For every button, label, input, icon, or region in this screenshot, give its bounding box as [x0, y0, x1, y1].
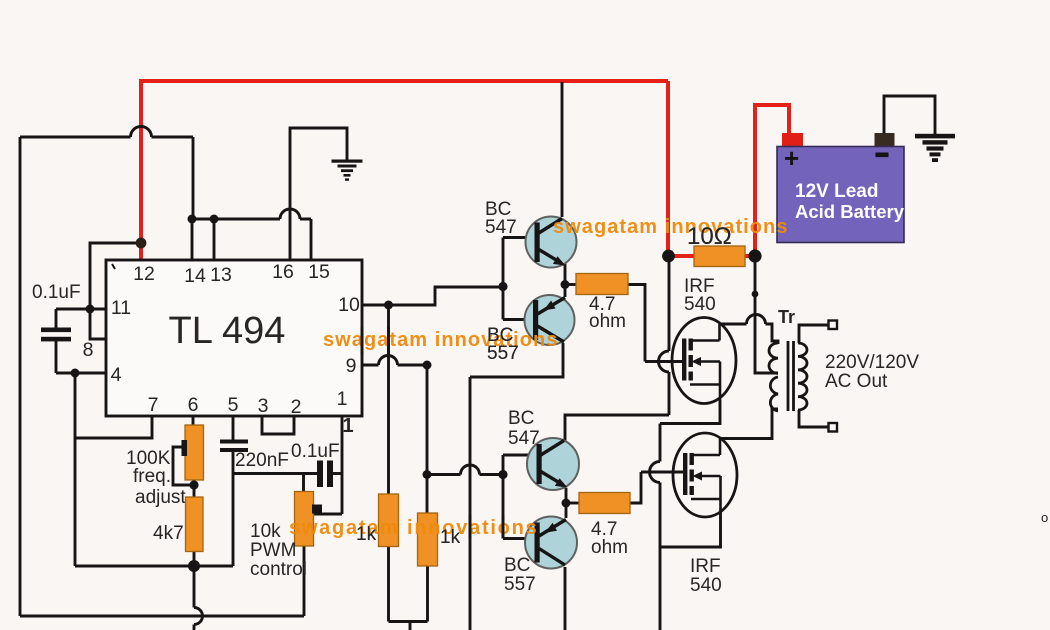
svg-text:ohm: ohm: [591, 537, 628, 558]
node lower emitters junction: [562, 499, 571, 508]
svg-text:10: 10: [338, 294, 360, 316]
svg-text:adjust: adjust: [135, 487, 186, 508]
wire M1 source to ground with hop: [660, 400, 720, 630]
svg-text:16: 16: [272, 261, 294, 283]
wire red 10ohm left: [666, 254, 694, 258]
wire pins 3-2 loop: [262, 416, 294, 434]
transformer Tr: [769, 341, 807, 411]
svg-text:4: 4: [111, 364, 122, 386]
svg-text:freq.: freq.: [133, 466, 171, 487]
wire transformer secondary top: [799, 325, 829, 343]
svg-text:0.1uF: 0.1uF: [32, 282, 81, 303]
wire pin9 with hop: [362, 364, 427, 367]
svg-text:BC: BC: [504, 555, 530, 576]
wire red right drop to 10ohm: [666, 81, 670, 256]
wire lower base vertical: [503, 455, 539, 539]
ground symbol near pin16: [332, 160, 363, 181]
wire M1 drain with hop: [721, 324, 778, 344]
svg-text:6: 6: [188, 394, 199, 416]
resistor R1 10 ohm: [694, 246, 745, 267]
wire to R3 left: [565, 283, 576, 286]
capacitor C1 0.1uF plates: [41, 328, 71, 342]
node pin12 junction: [136, 238, 147, 249]
svg-text:swagatam innovations: swagatam innovations: [323, 329, 559, 351]
wire Q4 collector down: [564, 567, 567, 630]
svg-text:2: 2: [291, 396, 302, 418]
potentiometer VR1 100K: [185, 425, 204, 480]
wire 10k pot top drop: [302, 474, 305, 493]
capacitor C4 0.1uF plates: [317, 461, 333, 488]
wire ground rail y566: [75, 565, 233, 568]
svg-text:1: 1: [337, 388, 348, 410]
wire cap C4 right stub: [333, 472, 343, 475]
wire Q1 collector to rail: [561, 82, 564, 217]
transistor Q1 BC547 upper: [526, 217, 577, 268]
wire 4k7 node down with hop: [193, 566, 196, 630]
svg-text:220V/120V: 220V/120V: [825, 352, 919, 373]
svg-text:Tr: Tr: [778, 307, 795, 327]
AC terminal top: [829, 321, 838, 330]
node lower base junction: [498, 470, 507, 479]
svg-text:TL 494: TL 494: [169, 310, 286, 352]
svg-text:BC: BC: [508, 408, 534, 429]
svg-text:557: 557: [504, 574, 536, 595]
wire top-left horizontal with hop over red: [20, 136, 193, 139]
wire pin1 to wiper: [314, 513, 342, 516]
svg-text:7: 7: [148, 394, 159, 416]
wire pin13 drop: [213, 219, 216, 260]
resistor R3 4.7 ohm upper: [576, 274, 628, 295]
wire pin12 node to pins 11-8: [90, 243, 140, 309]
wire pin1 vertical: [341, 416, 344, 514]
wire node y473 horizontal: [233, 472, 317, 475]
wire pin14 drop: [191, 219, 194, 260]
wire red battery plus feed: [755, 105, 789, 258]
potentiometer VR2 10k: [295, 492, 314, 547]
wire pin16 to ground: [290, 128, 347, 260]
node +12V drain junction: [662, 250, 675, 263]
wire R3 right to gate M1: [628, 285, 684, 362]
svg-text:14: 14: [184, 265, 206, 287]
svg-text:12: 12: [133, 263, 155, 285]
wire Q2 collector down: [470, 343, 563, 630]
svg-text:11: 11: [111, 297, 131, 319]
svg-text:control: control: [250, 559, 307, 580]
resistor R2 4k7: [186, 497, 204, 552]
svg-text:AC Out: AC Out: [825, 371, 888, 392]
node 10ohm battery junction: [748, 249, 761, 262]
svg-text:540: 540: [690, 575, 722, 596]
wire pin6 to 100K: [192, 416, 195, 426]
battery BT1 12V: [777, 133, 905, 243]
wire 1k right bottom: [426, 566, 429, 622]
node pin4 junction: [71, 369, 80, 378]
svg-text:swagatam innovations: swagatam innovations: [289, 517, 539, 539]
wire 4k7 bottom: [193, 551, 196, 566]
wire upper base vertical: [503, 238, 537, 320]
wire 100K to 4k7: [193, 480, 196, 497]
svg-text:3: 3: [258, 395, 269, 417]
wire 220nF bottom vertical: [232, 452, 235, 567]
svg-text:ohm: ohm: [589, 311, 626, 332]
node pin14 junction: [188, 215, 197, 224]
wire red 10ohm right: [745, 254, 757, 258]
node upper emitters junction: [561, 280, 570, 289]
node pin11 junction: [86, 305, 95, 314]
node pin10 junction: [384, 301, 393, 310]
wire upper emitters: [564, 262, 567, 297]
svg-text:220nF: 220nF: [235, 450, 289, 471]
wire 100K wiper: [173, 447, 193, 485]
wire 10k pot bottom: [303, 546, 306, 616]
resistor R5 1k left: [379, 494, 399, 547]
wire right vertical to pin14 node: [192, 137, 195, 219]
ground symbol battery: [915, 134, 955, 162]
wire pin5 to 220nF: [232, 416, 235, 440]
wire node 14-13-15 horizontal with hop over pin16 wire: [192, 218, 311, 221]
wire to R4 left: [566, 502, 579, 505]
wire battery minus to ground: [884, 96, 935, 134]
wire lower emitters: [565, 488, 568, 518]
node 4k7 bottom junction: [188, 560, 200, 572]
wire pins 4,7 vertical: [74, 373, 77, 566]
mosfet M1 IRF540 upper: [672, 318, 736, 404]
wire far-left vertical: [19, 137, 22, 616]
AC terminal bottom: [829, 423, 838, 432]
svg-text:Acid Battery: Acid Battery: [795, 201, 905, 222]
svg-text:PWM: PWM: [250, 540, 296, 561]
wire bottom rail: [20, 615, 304, 618]
svg-text:10k: 10k: [250, 521, 281, 542]
svg-text:13: 13: [210, 264, 232, 286]
svg-text:8: 8: [83, 339, 94, 361]
tick inside IC: [112, 264, 115, 269]
svg-text:4k7: 4k7: [153, 523, 184, 544]
wire overdraw red right drop over watermark: [362, 327, 503, 539]
resistor R6 1k right: [418, 513, 438, 566]
wire M2 source: [660, 510, 721, 547]
svg-text:1k: 1k: [356, 524, 377, 545]
resistor R4 4.7 ohm lower: [579, 493, 630, 514]
svg-text:15: 15: [308, 261, 330, 283]
transistor Q4 BC557 lower: [525, 517, 577, 569]
wire 1k bottom rail and stub: [389, 622, 428, 630]
svg-text:swagatam innovations: swagatam innovations: [553, 216, 789, 238]
wire transformer secondary bottom: [799, 410, 829, 427]
wire 1k left bottom: [387, 547, 390, 622]
svg-text:0.1uF: 0.1uF: [291, 441, 340, 462]
node pin9 junction: [423, 361, 432, 370]
svg-text:1: 1: [342, 415, 353, 437]
wire lower base horizontal with hop: [427, 473, 503, 476]
node lower base left junction: [423, 470, 432, 479]
IC U1 TL494: [106, 260, 362, 416]
wire pin10 to bases node: [362, 287, 503, 305]
capacitor C2 220nF plates: [220, 440, 248, 453]
wire cap C1 bottom to pin4: [56, 340, 106, 374]
svg-text:+: +: [784, 143, 799, 173]
wire R4 right to gate M2: [630, 472, 685, 503]
svg-text:10Ω: 10Ω: [687, 223, 732, 250]
transistor Q2 BC557 upper: [525, 295, 575, 345]
svg-text:o: o: [1041, 510, 1048, 525]
wire pin15 drop: [310, 219, 313, 260]
svg-text:12V Lead: 12V Lead: [795, 181, 878, 202]
node upper base junction: [498, 282, 507, 291]
wire M2 drain: [721, 409, 778, 439]
svg-text:557: 557: [487, 343, 519, 364]
svg-text:547: 547: [508, 428, 540, 449]
svg-text:547: 547: [485, 217, 517, 238]
svg-text:1k: 1k: [440, 527, 461, 548]
wire Q3 collector to +12V node: [565, 256, 669, 441]
node pin13 junction: [210, 215, 219, 224]
mosfet M2 IRF540 lower: [673, 433, 737, 517]
wire pin8 jog: [90, 309, 106, 339]
wire cap C1 top to pin11: [56, 309, 106, 329]
wire pin7 jog: [75, 416, 152, 438]
wire red +12V top rail: [141, 79, 668, 83]
node center tap dot: [752, 291, 759, 298]
wire 1k left vertical from pin10 node: [387, 305, 390, 494]
node VR1-4k7 junction: [189, 480, 198, 489]
wire center tap vertical: [755, 256, 778, 373]
svg-text:5: 5: [228, 394, 239, 416]
svg-text:IRF: IRF: [690, 556, 721, 577]
wire red pin12 drop: [139, 79, 143, 259]
wire 1k right chain: [426, 365, 429, 513]
transistor Q3 BC547 lower: [527, 438, 579, 490]
VR2 wiper tab: [312, 505, 322, 514]
svg-text:9: 9: [346, 355, 357, 377]
svg-text:540: 540: [684, 294, 716, 315]
